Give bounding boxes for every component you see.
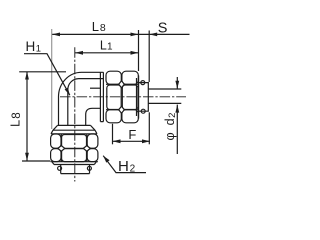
svg-text:L: L [92, 19, 99, 34]
svg-text:8: 8 [11, 112, 23, 118]
arrow L1 left [75, 51, 83, 55]
bottom nut division lines [61, 134, 87, 162]
dimension S label [158, 20, 168, 36]
svg-text:L: L [100, 38, 107, 52]
body boss line at right port [90, 87, 100, 89]
bottom sleeve circle right [87, 166, 91, 170]
right nut division lines [106, 84, 139, 109]
bottom flange top edge [58, 124, 91, 126]
arrow S (points left, tip at x=149) [149, 33, 157, 37]
tube right top edge [148, 88, 181, 90]
right nut end edge [138, 76, 140, 119]
node: vertical centerline of bottom port [74, 47, 76, 181]
dimension L8 top label [92, 19, 106, 34]
right sleeve rectangle [139, 83, 149, 112]
svg-text:H: H [26, 39, 36, 54]
svg-text:L: L [8, 120, 23, 127]
body outer outline with corner arc [59, 72, 104, 125]
bottom nut hex B left facet [51, 149, 61, 162]
arrow F left [113, 139, 121, 143]
body bottom-right fillet [86, 108, 101, 125]
svg-text:2: 2 [167, 113, 178, 118]
svg-text:8: 8 [100, 22, 106, 34]
label H1 with leader [26, 39, 42, 54]
bottom sleeve circle left [58, 166, 62, 170]
arrow H2 leader tip [103, 156, 109, 163]
wire: extension line at sleeve right edge (x=149) [148, 31, 150, 83]
wire: left L8 bottom extension line [22, 160, 50, 162]
dimension L1 label [100, 38, 113, 52]
bottom sleeve rectangle [61, 165, 90, 174]
arrow L1 right [131, 51, 139, 55]
wire: phi-d2 dimension line lower [176, 105, 178, 154]
label H2 with leader [118, 158, 136, 175]
arrow L8 top right [131, 33, 139, 37]
wire: phi-d2 dimension line upper [176, 77, 178, 89]
right nut hex B middle facet [122, 85, 138, 110]
wire: F right extension line [148, 112, 150, 144]
right nut hex B top facet [122, 71, 138, 84]
bottom nut chamfer diamond left [58, 146, 65, 152]
bottom nut hex B right facet [87, 149, 98, 162]
bottom nut chamfer diamond right [83, 146, 90, 152]
bottom nut hex B middle facet [62, 149, 87, 162]
arrow phi-d2 down [175, 81, 179, 89]
bottom nut end bevels [52, 162, 96, 165]
right nut end face line [136, 78, 138, 116]
bottom nut bottom edge [51, 161, 98, 163]
svg-text:S: S [158, 20, 168, 36]
wire: extension line at right end of nut (x=138.5) [138, 30, 140, 71]
svg-text:1: 1 [36, 43, 41, 54]
arrow phi-d2 up [175, 105, 179, 113]
bottom flange mid edge [53, 129, 95, 131]
arrow L8 top left [52, 33, 60, 37]
wire: F dimension line [113, 140, 151, 142]
wire: F left extension line [112, 124, 114, 145]
dimension F label [128, 127, 136, 142]
dimension L8 left label (rotated) [8, 112, 23, 127]
right nut hex A middle facet [107, 85, 121, 110]
arrow left L8 top [25, 72, 29, 80]
wire: H2 leader line [103, 156, 146, 173]
arrow H1 leader tip [65, 88, 70, 96]
tube right bottom edge [148, 102, 181, 104]
wire: L1 dimension line [75, 52, 139, 54]
node: horizontal centerline of right port [60, 96, 186, 98]
right sleeve circle bottom [141, 109, 145, 113]
svg-text:F: F [128, 127, 136, 142]
arrow F right [142, 139, 150, 143]
flange of right port [100, 72, 103, 121]
wire: top horizontal dimension line (L8 and S) [52, 33, 190, 35]
svg-text:d: d [163, 118, 177, 125]
right nut hex A top facet [106, 71, 121, 84]
bottom nut end face [54, 164, 94, 166]
wire: left L8 top extension line [19, 71, 66, 73]
arrow left L8 bottom [25, 153, 29, 161]
bottom washer bevels [51, 130, 97, 134]
right nut chamfer diamond lower [119, 106, 125, 113]
bottom flange bevels [53, 125, 95, 130]
wire: H1 leader line [24, 54, 70, 95]
right nut chamfer diamond upper [119, 81, 125, 88]
svg-text:φ: φ [163, 132, 177, 140]
svg-text:1: 1 [107, 41, 113, 52]
right sleeve circle top [141, 81, 145, 85]
right nut hex B bottom facet [122, 110, 138, 123]
wire: left L8 vertical dimension line [26, 72, 28, 161]
bottom nut hex A right facet [87, 134, 98, 148]
bottom nut hex A middle facet [62, 135, 87, 149]
right nut hex A bottom facet [106, 110, 121, 123]
bottom nut hex A left facet [51, 134, 61, 148]
dimension phi-d2 label (rotated) [163, 113, 178, 141]
wire: extension line left of top L8 (gray) [51, 29, 53, 129]
body inner chamfer line with corner arc [68, 79, 104, 126]
bottom hex top edge [51, 133, 97, 135]
